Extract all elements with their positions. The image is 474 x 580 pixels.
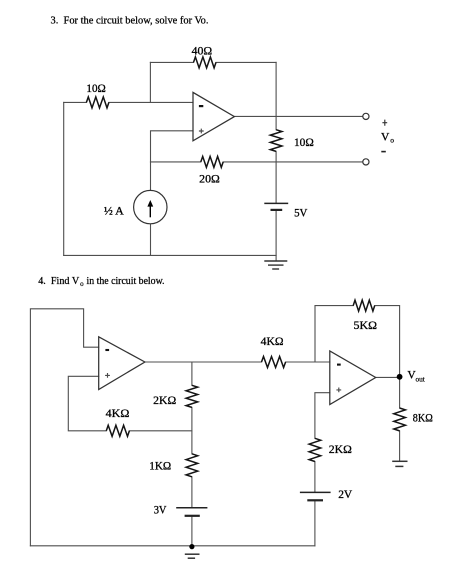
resistor 2K right — [309, 438, 321, 461]
svg-text:3V: 3V — [154, 505, 167, 517]
svg-text:2KΩ: 2KΩ — [329, 444, 352, 456]
resistor 5K feedback — [353, 300, 375, 311]
wire: left vertical rail — [63, 102, 65, 255]
svg-text:in the circuit below.: in the circuit below. — [87, 276, 165, 287]
resistor 20 ohm — [201, 156, 223, 167]
wire: right branch 2V battery and 2K — [315, 393, 330, 546]
resistor 4K coupling — [262, 357, 286, 368]
U1 non-inverting input plus — [199, 129, 204, 134]
wire: U3 output — [376, 376, 400, 378]
svg-text:2V: 2V — [338, 489, 353, 501]
ground under 8K — [392, 461, 407, 466]
svg-text:o: o — [80, 280, 84, 288]
ground circuit 3 — [264, 261, 287, 269]
svg-text:40Ω: 40Ω — [192, 45, 213, 57]
op-amp U1 — [193, 92, 234, 140]
wire: current source bottom lead — [150, 224, 152, 255]
wire: battery 5V leads — [275, 162, 277, 261]
wire: top left loop — [30, 309, 98, 546]
wire: plus input loop of U2 — [68, 376, 192, 431]
wire: left input horizontal to 10ohm — [64, 101, 193, 103]
svg-text:4. Find V: 4. Find V — [38, 276, 79, 287]
resistor 4K left feedback — [106, 425, 129, 436]
node Vout dot — [397, 374, 403, 380]
op-amp U3 — [330, 351, 376, 405]
U3 non-inverting input plus — [336, 388, 341, 393]
resistor 40 ohm feedback — [194, 57, 217, 68]
U2 non-inverting input plus — [105, 373, 110, 378]
svg-text:2KΩ: 2KΩ — [153, 395, 176, 407]
svg-text:out: out — [416, 375, 426, 384]
svg-text:o: o — [390, 136, 394, 145]
wire: op-amp U1 output — [234, 115, 362, 117]
ground bottom middle — [185, 554, 200, 558]
wire: feedback left vertical — [149, 62, 151, 102]
svg-text:V: V — [381, 131, 390, 143]
wire: 8K branch to ground — [399, 377, 401, 462]
node junction dot bottom — [189, 544, 194, 549]
wire: current source top lead — [150, 162, 152, 190]
op-amp U2 — [99, 337, 145, 390]
svg-text:1KΩ: 1KΩ — [149, 461, 171, 473]
wire: middle vertical branch — [191, 362, 193, 546]
wire: plus input of U1 — [151, 131, 194, 162]
U3 inverting input minus — [337, 364, 341, 366]
wire: 10ohm vertical resistor leads — [275, 116, 277, 161]
svg-text:8KΩ: 8KΩ — [413, 413, 433, 425]
wire: feedback top horizontal — [150, 61, 276, 63]
resistor 2K middle — [186, 385, 198, 407]
resistor 1K — [186, 454, 198, 477]
battery 2V — [300, 491, 331, 493]
svg-text:10Ω: 10Ω — [86, 83, 105, 95]
wire: lower horizontal to terminal — [151, 161, 363, 163]
svg-text:5KΩ: 5KΩ — [354, 320, 378, 332]
wire: U3 feedback loop — [315, 306, 400, 377]
wire: bottom rail circuit 3 — [64, 254, 276, 256]
svg-text:5V: 5V — [294, 207, 308, 219]
svg-text:10Ω: 10Ω — [294, 137, 314, 149]
battery 3V — [176, 507, 207, 509]
label plus Vo minus — [382, 120, 387, 126]
svg-text:½ A: ½ A — [104, 206, 125, 218]
resistor 10 ohm vertical — [270, 130, 282, 152]
resistor 8K — [394, 408, 406, 431]
wire: feedback right vertical — [275, 62, 277, 116]
svg-text:3. For the circuit below, sol: 3. For the circuit below, solve for Vo. — [51, 15, 209, 26]
resistor 10 ohm input — [86, 97, 109, 108]
current source 1/2 A — [134, 190, 167, 223]
battery 5V — [264, 202, 288, 204]
wire: U2 output to U3 input — [145, 361, 330, 363]
U2 inverting input minus — [105, 349, 109, 351]
wire: bottom rail circuit 4 — [30, 545, 315, 547]
svg-text:4KΩ: 4KΩ — [261, 336, 284, 348]
svg-text:20Ω: 20Ω — [199, 173, 220, 185]
U1 inverting input minus — [199, 105, 203, 107]
terminal circle bottom — [363, 159, 369, 165]
terminal circle top — [363, 113, 369, 119]
svg-text:4KΩ: 4KΩ — [106, 408, 130, 420]
